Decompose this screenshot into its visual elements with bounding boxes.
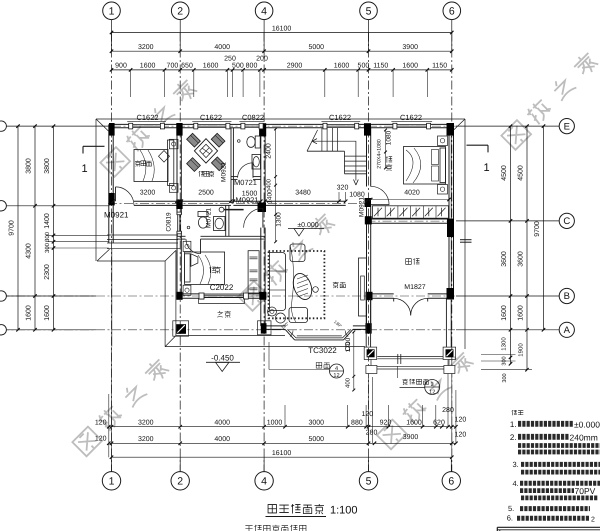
wall grid4 — [260, 128, 262, 209]
right dimension block — [456, 125, 559, 127]
svg-text:200: 200 — [256, 55, 268, 62]
title block frame — [497, 526, 600, 528]
svg-text:3.: 3. — [513, 460, 519, 469]
svg-text:B: B — [564, 291, 570, 302]
svg-text:E: E — [564, 121, 570, 132]
svg-text:M0721: M0721 — [234, 178, 257, 187]
watermark 3 — [238, 211, 338, 311]
svg-text:M0921: M0921 — [221, 162, 228, 182]
window C2022 — [199, 293, 204, 299]
wall bathroom1 west — [230, 128, 232, 203]
svg-text:1150: 1150 — [373, 63, 388, 70]
svg-text:C: C — [563, 216, 570, 227]
svg-text:1300: 1300 — [501, 337, 508, 351]
svg-text:1600: 1600 — [406, 419, 422, 426]
svg-text:C1622: C1622 — [136, 113, 158, 122]
svg-text:4000: 4000 — [214, 44, 230, 51]
top dimension bays — [112, 50, 452, 52]
nightstand bedroom1 N — [438, 136, 448, 146]
svg-text:5000: 5000 — [309, 436, 325, 443]
svg-text:3900: 3900 — [403, 434, 419, 441]
svg-text:4: 4 — [335, 366, 338, 372]
svg-text:2300: 2300 — [44, 264, 51, 280]
living rug — [269, 251, 325, 318]
svg-text:C1622: C1622 — [329, 113, 351, 122]
svg-text:9700: 9700 — [534, 221, 541, 237]
svg-text:C1622: C1622 — [200, 113, 222, 122]
svg-text:1600: 1600 — [402, 63, 418, 70]
bay window TC3022 — [285, 329, 294, 340]
wardrobe entry band — [373, 206, 449, 218]
top dimension details — [112, 69, 452, 71]
svg-text:1600: 1600 — [334, 63, 350, 70]
svg-text:1400: 1400 — [44, 213, 51, 229]
section mark right — [467, 144, 489, 146]
svg-text:400: 400 — [345, 377, 352, 388]
svg-text:700: 700 — [167, 63, 179, 70]
bottom extension lines — [108, 394, 110, 457]
side circles — [313, 287, 319, 293]
wall grid2 — [176, 128, 178, 201]
toilet bathroom2 — [198, 212, 208, 217]
grid bubbles top — [103, 2, 121, 20]
svg-text:5: 5 — [366, 476, 372, 488]
wall grid5 — [366, 128, 368, 187]
label elder room — [135, 161, 141, 167]
svg-text:3900: 3900 — [402, 44, 418, 51]
svg-text:2.: 2. — [510, 433, 517, 442]
svg-text:1: 1 — [483, 162, 489, 174]
nightstand elder N — [169, 139, 178, 149]
tv cabinet — [359, 258, 367, 316]
svg-text:500: 500 — [358, 63, 370, 70]
grid bubbles bottom — [102, 472, 120, 490]
svg-text:1: 1 — [81, 163, 87, 175]
window C1622 bedroom1 — [393, 123, 397, 129]
grid bubbles left — [0, 121, 6, 131]
svg-text:4.: 4. — [513, 479, 519, 488]
svg-text:4300: 4300 — [26, 243, 33, 259]
svg-text:3200: 3200 — [138, 436, 154, 443]
watermark 4 — [72, 357, 172, 457]
svg-text:2500: 2500 — [198, 189, 214, 196]
svg-text:400: 400 — [265, 178, 272, 189]
nightstand bedroom2 N — [183, 241, 191, 251]
svg-text:800: 800 — [246, 63, 258, 70]
svg-text:500: 500 — [232, 63, 244, 70]
svg-text:12: 12 — [333, 373, 339, 379]
porch column west — [364, 347, 377, 359]
pavilion column 1 — [173, 321, 189, 336]
vertical dim column 2400/400/1400/1300 — [275, 129, 277, 242]
nightstand bedroom2 S — [183, 285, 191, 295]
svg-text:4000: 4000 — [214, 436, 230, 443]
svg-text:1600: 1600 — [26, 305, 33, 321]
svg-text:920: 920 — [380, 419, 392, 426]
svg-text:6.: 6. — [507, 514, 513, 523]
east wall glazing — [450, 136, 452, 219]
svg-text:5: 5 — [366, 5, 372, 17]
door M0921 living room — [244, 208, 263, 227]
porch side walls — [365, 298, 367, 347]
coffee table — [290, 271, 315, 302]
bottom dimension row1 — [109, 426, 456, 428]
svg-text:3600: 3600 — [501, 251, 508, 267]
wall bedroom2 north — [177, 235, 186, 237]
bottom dimension 16100 — [112, 456, 452, 458]
wall east grid6 — [448, 124, 450, 298]
porch column east — [443, 347, 456, 359]
steps callout — [425, 380, 440, 395]
left dimension block — [6, 125, 109, 127]
svg-text:M0921: M0921 — [236, 196, 259, 205]
window C1622 mahjong — [194, 123, 198, 129]
watermark 1 — [100, 77, 200, 177]
svg-text:3600: 3600 — [518, 251, 525, 267]
svg-text:3800: 3800 — [26, 158, 33, 174]
svg-text:4500: 4500 — [501, 165, 508, 181]
pavilion eave — [111, 249, 113, 347]
washbasin bathroom1 — [252, 155, 261, 170]
bed bedroom1 — [404, 147, 446, 185]
partial text strip bottom — [245, 526, 252, 531]
svg-text:±0.000: ±0.000 — [574, 420, 600, 430]
bed bedroom2 — [185, 252, 225, 284]
bottom dimension row2 — [109, 442, 456, 444]
chair south — [289, 308, 308, 323]
wall west grid1 — [108, 124, 110, 243]
svg-text:12: 12 — [429, 389, 435, 395]
columns — [109, 123, 115, 136]
svg-text:280: 280 — [366, 430, 378, 437]
svg-text:4: 4 — [261, 476, 267, 488]
svg-text:9700: 9700 — [9, 220, 16, 236]
svg-text:5.: 5. — [508, 504, 514, 513]
svg-text:±0.000: ±0.000 — [297, 222, 318, 229]
svg-text:16100: 16100 — [272, 25, 292, 32]
mahjong chairs — [187, 133, 201, 147]
wall A row living — [261, 325, 285, 327]
svg-text:120: 120 — [95, 420, 107, 427]
svg-text:1600: 1600 — [44, 305, 51, 321]
svg-text:1:100: 1:100 — [330, 505, 358, 517]
svg-text:1700: 1700 — [345, 337, 352, 352]
exterior wall E row — [109, 123, 129, 125]
window C1622 stair — [323, 123, 327, 129]
svg-text:M0921: M0921 — [104, 211, 129, 220]
label bedroom2 — [209, 267, 215, 273]
svg-text:M0921: M0921 — [359, 197, 366, 217]
sofa west — [270, 253, 286, 311]
label pavilion — [217, 311, 223, 317]
svg-text:A: A — [564, 325, 571, 336]
label bay window — [316, 363, 322, 369]
washbasin bathroom2 — [214, 217, 226, 231]
svg-text:1300: 1300 — [276, 212, 283, 227]
label entry — [406, 259, 412, 265]
window C1622 elder — [129, 123, 133, 129]
title floor plan — [268, 505, 276, 513]
svg-text:120: 120 — [455, 432, 467, 439]
svg-text:650: 650 — [181, 63, 193, 70]
label bedroom1 vertical — [386, 156, 392, 162]
svg-text:1080: 1080 — [386, 130, 393, 145]
svg-text:3200: 3200 — [138, 419, 154, 426]
wall bathroom2 east — [225, 205, 227, 236]
svg-text:300: 300 — [44, 231, 51, 242]
svg-text:320: 320 — [337, 184, 349, 191]
svg-text:880: 880 — [351, 419, 363, 426]
svg-text:300: 300 — [502, 356, 508, 365]
door M0921 bedroom1 — [371, 204, 389, 206]
wall D row — [134, 200, 231, 202]
svg-text:C2022: C2022 — [210, 283, 234, 292]
svg-text:2: 2 — [177, 5, 183, 17]
svg-text:M1827: M1827 — [404, 284, 426, 291]
svg-text:1600: 1600 — [203, 63, 219, 70]
svg-text:6: 6 — [449, 5, 455, 17]
door M0921 elder room — [115, 187, 117, 201]
svg-text:3480: 3480 — [295, 189, 311, 196]
svg-text:C0819: C0819 — [166, 212, 173, 232]
dim 1700/400 bay — [353, 332, 355, 390]
svg-text:240mm: 240mm — [570, 433, 598, 443]
wall C row — [367, 218, 454, 220]
label living room — [333, 282, 339, 288]
svg-text:4500: 4500 — [518, 165, 525, 181]
svg-text:3000: 3000 — [309, 419, 325, 426]
nightstand elder S — [169, 184, 178, 193]
svg-text:300: 300 — [502, 373, 508, 382]
svg-text:TC3022: TC3022 — [308, 346, 337, 355]
svg-text:C0822: C0822 — [242, 113, 264, 122]
svg-text:4020: 4020 — [404, 189, 420, 196]
toilet bathroom1 — [255, 136, 260, 148]
watermark 5 — [376, 350, 476, 450]
svg-text:2900: 2900 — [287, 63, 303, 70]
door M0721 bathroom1 — [252, 163, 254, 178]
wall B row bedroom2 — [177, 293, 199, 295]
wing south band — [107, 234, 178, 236]
roof eave outline — [96, 118, 465, 120]
svg-text:1600: 1600 — [140, 63, 156, 70]
dim 4020 line — [371, 199, 449, 201]
svg-text:620: 620 — [433, 419, 445, 426]
svg-text:5000: 5000 — [309, 44, 325, 51]
section mark left — [83, 145, 105, 147]
wall bathroom1 south — [231, 176, 238, 178]
svg-text:120: 120 — [95, 436, 107, 443]
svg-text:1600: 1600 — [518, 305, 525, 321]
top dimension 16100 — [112, 32, 452, 34]
vertical dims bedroom1 — [385, 130, 387, 168]
label outdoor steps — [402, 379, 408, 385]
nightstand bedroom1 S — [438, 185, 448, 195]
svg-text:3: 3 — [431, 382, 434, 388]
svg-text:16100: 16100 — [272, 450, 292, 457]
svg-text:270X4=1080: 270X4=1080 — [377, 139, 383, 169]
svg-text:1900: 1900 — [518, 343, 525, 357]
svg-text:2: 2 — [177, 476, 183, 488]
wardrobe bedroom2 — [248, 251, 259, 293]
bay window callout — [330, 364, 344, 378]
watermark 2 — [501, 50, 600, 150]
svg-text:4: 4 — [261, 5, 267, 17]
svg-text:900: 900 — [115, 63, 127, 70]
notes title — [512, 410, 517, 415]
svg-text:4000: 4000 — [214, 419, 230, 426]
porch steps — [377, 356, 443, 358]
svg-text:-0.450: -0.450 — [211, 354, 234, 363]
svg-text:1: 1 — [109, 476, 115, 488]
svg-text:3800: 3800 — [44, 158, 51, 174]
grid bubbles right — [559, 119, 574, 134]
bed elder room — [134, 150, 168, 182]
svg-text:1600: 1600 — [501, 305, 508, 321]
pavilion column 2 frame — [258, 321, 272, 335]
door M1827 double entry — [394, 298, 411, 315]
window C0819 — [177, 212, 181, 215]
chair north — [290, 244, 305, 262]
grid centerlines — [111, 33, 113, 472]
svg-text:120: 120 — [455, 417, 467, 424]
stairs — [321, 128, 323, 151]
wall B row entry/porch — [367, 293, 394, 295]
svg-text:70PV: 70PV — [575, 486, 596, 496]
svg-text:3200: 3200 — [138, 44, 154, 51]
window C0822 bath1 — [241, 123, 245, 129]
svg-text:1000: 1000 — [267, 419, 283, 426]
door bedroom2 — [200, 239, 202, 254]
svg-text:3200: 3200 — [140, 189, 156, 196]
mahjong table — [194, 139, 217, 163]
svg-text:2: 2 — [591, 517, 595, 524]
svg-text:M0721: M0721 — [206, 208, 213, 228]
svg-text:C1622: C1622 — [400, 113, 422, 122]
svg-text:6: 6 — [448, 476, 454, 488]
label mahjong room — [199, 171, 205, 177]
svg-text:250: 250 — [224, 55, 236, 62]
svg-text:1400: 1400 — [266, 189, 273, 204]
svg-text:1: 1 — [109, 5, 115, 17]
svg-text:300: 300 — [44, 242, 51, 253]
svg-text:1150: 1150 — [432, 63, 447, 70]
svg-text:2400: 2400 — [265, 143, 272, 159]
svg-text:120: 120 — [361, 411, 373, 418]
svg-text:1.: 1. — [510, 420, 517, 429]
